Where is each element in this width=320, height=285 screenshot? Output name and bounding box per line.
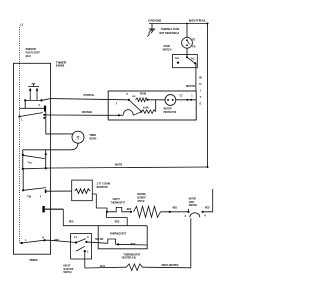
orange terminals <box>43 114 50 119</box>
svg-text:PROTECTOR: PROTECTOR <box>164 110 177 114</box>
label MOTOR PROTECTOR <box>164 107 177 114</box>
resistor element <box>75 189 91 194</box>
svg-text:T: T <box>77 135 80 140</box>
node timer H <box>44 239 46 241</box>
svg-text:RED-WHITE: RED-WHITE <box>162 263 179 267</box>
timer box <box>14 63 51 254</box>
svg-text:MOTOR: MOTOR <box>90 137 97 141</box>
thermostat heater element <box>126 264 142 271</box>
svg-text:F1: F1 <box>192 37 196 41</box>
svg-text:KNOB: KNOB <box>56 64 65 68</box>
safety thermostat <box>107 207 131 211</box>
motor cent arm 5-aux <box>129 100 142 112</box>
operating thermostat <box>108 239 118 244</box>
svg-text:BLUE: BLUE <box>100 264 105 268</box>
svg-text:PUSH TO START: PUSH TO START <box>26 50 40 54</box>
svg-text:RED: RED <box>127 208 132 211</box>
wire start to purple <box>42 99 51 101</box>
door switch arm <box>187 57 195 63</box>
svg-text:RESISTOR: RESISTOR <box>97 186 108 189</box>
node element right <box>169 211 171 213</box>
svg-text:4750 W.: 4750 W. <box>137 200 145 203</box>
door switch box <box>173 55 198 68</box>
ground symbol <box>147 24 155 37</box>
thermostat box <box>98 226 147 249</box>
door switch contact left <box>177 62 179 64</box>
door switch pivot <box>186 56 188 58</box>
svg-text:YELLOW: YELLOW <box>95 237 104 241</box>
label MOTOR CENT SWITCH <box>189 198 197 208</box>
svg-text:RED: RED <box>69 220 74 223</box>
selector arm 2 <box>76 246 85 251</box>
svg-text:MOTOR: MOTOR <box>186 84 195 88</box>
svg-text:RED: RED <box>173 206 178 209</box>
svg-text:1M: 1M <box>132 96 135 98</box>
node white corner <box>207 166 209 168</box>
wire white row <box>23 167 51 170</box>
svg-text:PURPLE: PURPLE <box>84 93 95 97</box>
svg-text:N.C.: N.C. <box>175 57 180 60</box>
motor switch box <box>108 91 196 120</box>
wire neutral to fuse <box>186 24 188 38</box>
heating element <box>134 206 161 217</box>
svg-text:RED: RED <box>115 220 120 223</box>
wire L1 to L <box>20 242 22 244</box>
wire bottom red-white <box>143 266 191 269</box>
wire H out <box>45 239 51 241</box>
svg-text:GROUND: GROUND <box>148 19 162 23</box>
svg-text:(BLU): (BLU) <box>26 54 31 58</box>
svg-text:NOT RESETABLE: NOT RESETABLE <box>160 31 180 35</box>
cent switch arm arc <box>190 213 200 217</box>
node L on L1 <box>18 115 20 117</box>
node TM left <box>22 153 47 156</box>
label Tm 2 <box>27 195 42 198</box>
selector contact C <box>85 241 87 243</box>
svg-text:RUN: RUN <box>140 91 146 95</box>
node thermostat out <box>117 243 119 245</box>
svg-text:TM: TM <box>27 196 31 199</box>
label resistor <box>97 183 110 189</box>
thermal fuse F1-F2 <box>182 37 193 48</box>
wire drop to TM contact <box>23 150 46 169</box>
wire terminal to timer motor <box>46 112 73 134</box>
svg-text:'C': 'C' <box>179 95 183 98</box>
svg-text:C: C <box>87 236 89 239</box>
wire to resistor box <box>46 190 71 192</box>
svg-text:SWITCH: SWITCH <box>189 204 197 207</box>
heat selector box <box>71 234 92 259</box>
wire junction down <box>155 100 157 112</box>
node element left <box>130 211 132 213</box>
wire fuse to door switch <box>186 48 188 57</box>
wire contact4 right up <box>203 189 213 212</box>
wire neutral rail right <box>207 24 209 168</box>
node fuse top junction <box>186 23 188 25</box>
svg-text:N.C.: N.C. <box>191 57 196 60</box>
label HEAT SELECTOR SWITCH <box>63 264 73 274</box>
motor terminal 7 <box>118 114 120 116</box>
svg-text:THERMOSTAT: THERMOSTAT <box>111 202 126 205</box>
run winding <box>136 98 148 102</box>
motor terminal 1 <box>190 99 192 101</box>
wire purple <box>51 99 129 100</box>
svg-text:TIMER: TIMER <box>29 258 38 262</box>
wire thermostat to right <box>118 243 147 246</box>
selector arm 1 <box>76 239 86 243</box>
svg-text:SWITCH: SWITCH <box>162 48 171 52</box>
cent switch contact 4 <box>202 211 204 213</box>
node white right <box>45 167 47 169</box>
wire hump to aux <box>133 112 141 116</box>
wire white <box>51 167 208 168</box>
node motor junction <box>146 99 148 101</box>
node aux left <box>140 111 142 113</box>
selector contact 2 <box>84 250 86 252</box>
svg-text:THERMAL FUSE: THERMAL FUSE <box>161 27 180 31</box>
svg-text:ORANGE: ORANGE <box>82 110 93 114</box>
timer arm L-H <box>22 240 45 243</box>
wire cent arm down <box>190 218 192 267</box>
wire timer red out <box>45 208 64 210</box>
wire safety junction drop <box>107 212 128 226</box>
timer contact TM arm <box>23 155 45 158</box>
timer motor M1 <box>72 131 84 143</box>
timer contact resistor arm <box>23 188 46 191</box>
timer terminal bar red <box>42 206 44 212</box>
wire selector out yellow <box>86 242 107 243</box>
svg-text:HEATER-2 W.: HEATER-2 W. <box>122 257 137 260</box>
wire start row to terminal <box>25 107 44 109</box>
cent switch contact 3 <box>187 209 189 213</box>
node resistor row right <box>45 189 47 193</box>
selector contact A <box>75 241 77 243</box>
label TIMER MOTOR <box>90 133 97 140</box>
wire timer to selector <box>51 240 77 242</box>
svg-text:DOOR: DOOR <box>164 44 170 48</box>
wire left column down <box>22 169 24 191</box>
wire resistor out <box>92 194 107 212</box>
svg-text:H: H <box>42 235 44 239</box>
timer arm orange row <box>20 113 43 117</box>
wire bottom blue <box>85 266 127 269</box>
node white left <box>22 168 24 170</box>
wire run to protector <box>148 99 166 101</box>
svg-text:THERMOSTAT: THERMOSTAT <box>110 231 127 235</box>
wire orange inside box <box>108 114 123 116</box>
door switch contact right <box>194 62 196 64</box>
node heat row left junction <box>106 211 108 213</box>
motor terminal C <box>186 99 188 101</box>
wire orange <box>51 114 109 116</box>
wire element to junction <box>161 211 189 213</box>
motor protector <box>165 95 176 106</box>
svg-text:NEUTRAL: NEUTRAL <box>189 19 207 23</box>
svg-text:WHITE: WHITE <box>115 163 123 167</box>
wire selector down <box>84 251 86 268</box>
wire L1 inside box dashed <box>19 63 21 243</box>
svg-text:SWITCH: SWITCH <box>63 270 71 274</box>
motor aux hump <box>123 110 133 116</box>
label TIMER KNOB <box>56 61 67 68</box>
svg-text:TIMER: TIMER <box>90 133 97 137</box>
wire red down jog <box>63 209 147 226</box>
svg-text:H: H <box>199 82 201 86</box>
terminal bar orange <box>44 106 46 112</box>
label SAFETY THERMOSTAT <box>111 198 126 204</box>
svg-text:L1: L1 <box>20 23 24 27</box>
push-to-start switch <box>24 84 43 102</box>
node neutral corner <box>207 23 209 25</box>
wire neutral top <box>149 23 208 25</box>
svg-text:AUX.: AUX. <box>143 106 150 110</box>
svg-text:RED: RED <box>205 206 210 209</box>
wire L1 vertical dashed <box>19 27 21 63</box>
svg-text:W: W <box>199 75 202 79</box>
label HEATING ELEMENT <box>137 193 146 203</box>
svg-text:F2: F2 <box>192 45 196 49</box>
wire protector to wall <box>176 99 196 101</box>
resistor box R1 <box>72 180 93 201</box>
wire L1 to start <box>20 100 26 108</box>
label THERMOSTAT HEATER <box>122 253 141 259</box>
label WHITE vertical <box>199 75 202 105</box>
wire door switch down <box>195 63 197 91</box>
svg-text:E: E <box>200 101 202 105</box>
aux winding <box>141 110 155 114</box>
motor terminal 5 <box>128 99 130 101</box>
node timer L <box>21 242 23 244</box>
wire timer motor return <box>23 143 78 150</box>
node resistor row left <box>22 189 24 191</box>
svg-text:MOMENTARY: MOMENTARY <box>26 47 37 51</box>
